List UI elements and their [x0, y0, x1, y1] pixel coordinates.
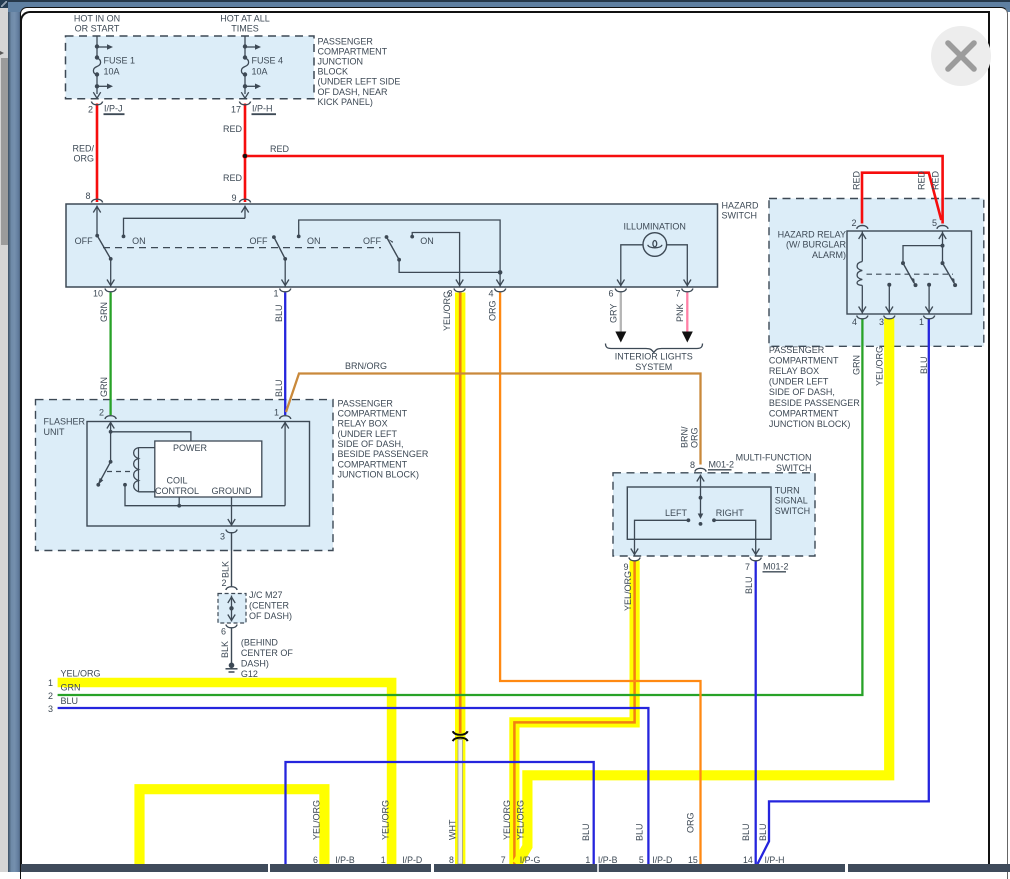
- svg-text:CENTER OF: CENTER OF: [241, 648, 294, 658]
- hazard switch pole 1: [95, 234, 99, 238]
- fuse F1 10A symbol: [96, 36, 98, 58]
- svg-text:M01-2: M01-2: [709, 460, 735, 470]
- svg-text:(UNDER LEFT: (UNDER LEFT: [769, 377, 829, 387]
- svg-text:10: 10: [93, 289, 103, 299]
- relay coil: [861, 232, 863, 262]
- svg-text:FUSE 4: FUSE 4: [252, 56, 284, 66]
- svg-text:HAZARD RELAY: HAZARD RELAY: [778, 230, 846, 240]
- svg-text:1: 1: [274, 408, 279, 418]
- svg-text:10A: 10A: [104, 67, 120, 77]
- passenger compartment junction block dashed box: [66, 36, 315, 99]
- hazard switch pole 3: [385, 235, 389, 239]
- svg-text:ILLUMINATION: ILLUMINATION: [624, 222, 686, 232]
- passenger compartment relay box dashed box: [769, 199, 984, 347]
- svg-text:BLU: BLU: [634, 823, 644, 841]
- inline connector on YEL/ORG-WHT wire: [453, 731, 468, 735]
- relay contact pole 2: [941, 261, 945, 265]
- svg-text:2: 2: [221, 578, 226, 588]
- svg-text:1: 1: [919, 317, 924, 327]
- svg-text:SIGNAL: SIGNAL: [775, 496, 808, 506]
- svg-text:GRN: GRN: [852, 355, 862, 375]
- svg-text:RED: RED: [852, 170, 862, 190]
- connector pin 4 of hazard switch: [495, 289, 506, 292]
- svg-text:(BEHIND: (BEHIND: [241, 638, 279, 648]
- wire GRY from hazard switch pin 6 to interior lights system: [620, 293, 622, 335]
- connector pin 3 of hazard switch: [454, 289, 465, 292]
- svg-text:WHT: WHT: [447, 819, 457, 840]
- arrow PNK to interior lights: [682, 332, 693, 343]
- flasher power/coil-control/ground box: [155, 441, 262, 497]
- wire ORG from hazard switch pin 4 to connector 15: [500, 293, 700, 865]
- wire BRN/ORG from flasher unit pin 1 to multi-function switch pin 8: [286, 374, 701, 465]
- connector pin 7 of hazard switch: [682, 289, 693, 292]
- wire RED/ORG from fuse 1 connector 2 I/P-J to hazard switch pin 8: [96, 104, 99, 203]
- svg-text:G12: G12: [241, 669, 258, 679]
- svg-text:COMPARTMENT: COMPARTMENT: [769, 408, 839, 418]
- flasher unit inner box: [87, 422, 310, 527]
- svg-text:COMPARTMENT: COMPARTMENT: [338, 459, 408, 469]
- svg-text:5: 5: [932, 218, 937, 228]
- svg-text:4: 4: [852, 317, 857, 327]
- relay linkage dashed: [867, 273, 953, 275]
- flasher switch contact and output: [123, 483, 127, 487]
- connector pin 1 of flasher unit: [280, 416, 291, 419]
- hazard switch box: [66, 204, 718, 287]
- svg-text:7: 7: [745, 562, 750, 572]
- svg-text:BLU: BLU: [581, 823, 591, 841]
- svg-text:SYSTEM: SYSTEM: [635, 362, 672, 372]
- svg-text:17: 17: [231, 105, 241, 115]
- svg-text:SWITCH: SWITCH: [722, 211, 758, 221]
- J/C M27 internal wire: [231, 596, 233, 622]
- svg-text:HOT IN ON: HOT IN ON: [74, 13, 120, 23]
- wire YEL/ORG highlighted from hazard relay pin 3 to connector 7 I/P-G: [517, 319, 889, 865]
- connector 9 of multi-function switch: [629, 558, 640, 561]
- connector pin 10 of hazard switch: [105, 289, 116, 292]
- svg-text:YEL/ORG: YEL/ORG: [516, 800, 526, 840]
- svg-text:GRN: GRN: [99, 377, 109, 397]
- svg-text:OFF: OFF: [75, 236, 93, 246]
- svg-text:SWITCH: SWITCH: [776, 463, 812, 473]
- svg-text:GRN: GRN: [99, 302, 109, 322]
- turn signal switch inner box: [627, 487, 771, 539]
- flasher unit dashed box: [36, 400, 334, 551]
- flasher coil: [134, 448, 139, 492]
- svg-text:BRN/ORG: BRN/ORG: [345, 361, 387, 371]
- svg-text:10A: 10A: [252, 67, 268, 77]
- svg-text:BLK: BLK: [220, 641, 230, 658]
- svg-text:INTERIOR LIGHTS: INTERIOR LIGHTS: [615, 352, 693, 362]
- svg-text:PASSENGER: PASSENGER: [769, 345, 825, 355]
- svg-text:RIGHT: RIGHT: [716, 508, 745, 518]
- connector pin 3 of flasher: [226, 530, 237, 533]
- connector pin 6 of hazard switch: [615, 289, 626, 292]
- hazard switch pole 2: [272, 235, 276, 239]
- svg-text:OF DASH): OF DASH): [249, 611, 292, 621]
- svg-text:I/P-H: I/P-H: [252, 104, 273, 114]
- right contact of turn signal switch: [712, 518, 716, 522]
- wire YEL/ORG highlighted from hazard switch pin 3 down to inline connector: [455, 293, 465, 865]
- wire BLK from flasher to J/C M27: [231, 532, 233, 586]
- svg-text:ORG: ORG: [488, 300, 498, 321]
- svg-text:6: 6: [221, 627, 226, 637]
- wire WHT highlighted from inline connector down to connector 8: [458, 740, 462, 865]
- svg-text:3: 3: [220, 532, 225, 542]
- svg-text:GRY: GRY: [609, 304, 619, 323]
- connector 2 I/P-J: [91, 102, 102, 105]
- svg-text:PASSENGER: PASSENGER: [338, 398, 394, 408]
- svg-text:ON: ON: [420, 236, 434, 246]
- flasher pin 2 internal wire: [110, 421, 112, 462]
- svg-text:RED: RED: [931, 170, 941, 190]
- svg-text:1: 1: [273, 289, 278, 299]
- svg-text:7: 7: [675, 289, 680, 299]
- svg-text:CONTROL: CONTROL: [155, 486, 199, 496]
- turn signal switch blade: [700, 475, 702, 498]
- svg-text:ORG: ORG: [73, 154, 94, 164]
- svg-text:FUSE 1: FUSE 1: [104, 56, 136, 66]
- svg-text:BLU: BLU: [741, 823, 751, 841]
- svg-text:BLU: BLU: [758, 823, 768, 841]
- flasher switch blade: [109, 460, 113, 464]
- svg-text:BLU: BLU: [919, 356, 929, 374]
- connector 8 M01-2: [695, 468, 706, 471]
- svg-text:2: 2: [99, 408, 104, 418]
- svg-text:HAZARD: HAZARD: [722, 201, 760, 211]
- svg-text:8: 8: [690, 460, 695, 470]
- relay pin 1 internal wire: [927, 283, 931, 287]
- svg-text:HOT AT ALL: HOT AT ALL: [220, 13, 270, 23]
- svg-text:RED: RED: [223, 124, 243, 134]
- svg-text:2: 2: [48, 691, 53, 701]
- flasher ground output: [231, 497, 233, 526]
- svg-text:YEL/ORG: YEL/ORG: [502, 800, 512, 840]
- svg-text:COMPARTMENT: COMPARTMENT: [338, 409, 408, 419]
- wire RED jumper from hazard relay pin 2 to pin 5: [862, 173, 941, 224]
- svg-text:KICK PANEL): KICK PANEL): [318, 97, 373, 107]
- hazard relay inner box: [847, 231, 972, 314]
- svg-text:2: 2: [851, 218, 856, 228]
- svg-text:(UNDER LEFT: (UNDER LEFT: [338, 429, 398, 439]
- svg-text:3: 3: [48, 704, 53, 714]
- ground G12 symbol: [229, 663, 235, 669]
- connector pin 3 of hazard relay: [884, 316, 895, 319]
- wire YEL/ORG highlighted n-shape to connector 6 I/P-B: [140, 789, 325, 864]
- brace interior lights system: [606, 344, 703, 353]
- svg-text:BESIDE PASSENGER: BESIDE PASSENGER: [338, 449, 429, 459]
- relay pin 5 internal wire: [942, 232, 944, 264]
- svg-text:GROUND: GROUND: [212, 486, 252, 496]
- svg-text:YEL/ORG: YEL/ORG: [61, 669, 101, 679]
- svg-text:GRN: GRN: [61, 682, 81, 692]
- svg-text:SWITCH: SWITCH: [775, 506, 811, 516]
- lamp lead left to pin 6: [621, 245, 643, 287]
- svg-text:3: 3: [879, 317, 884, 327]
- connector 17 I/P-H: [239, 102, 250, 105]
- svg-text:ON: ON: [307, 236, 321, 246]
- svg-text:BLU: BLU: [61, 696, 79, 706]
- svg-text:RELAY BOX: RELAY BOX: [338, 419, 388, 429]
- svg-text:OFF: OFF: [363, 236, 381, 246]
- connector 6 of J/C M27: [226, 625, 237, 628]
- svg-text:1: 1: [48, 678, 53, 688]
- svg-text:9: 9: [231, 193, 236, 203]
- svg-text:4: 4: [488, 289, 493, 299]
- multi-function switch dashed box: [613, 473, 815, 556]
- svg-text:YEL/ORG: YEL/ORG: [874, 346, 884, 386]
- svg-text:BLU: BLU: [744, 576, 754, 594]
- svg-text:8: 8: [85, 191, 90, 201]
- svg-text:YEL/ORG: YEL/ORG: [442, 291, 452, 331]
- svg-text:RED: RED: [223, 173, 243, 183]
- arrow GRY to interior lights: [615, 332, 626, 343]
- connector pin 4 of hazard relay: [857, 316, 868, 319]
- svg-text:M01-2: M01-2: [763, 562, 789, 572]
- svg-text:ALARM): ALARM): [812, 250, 846, 260]
- svg-text:OFF: OFF: [250, 236, 268, 246]
- connector 7 M01-2 of multi-function switch: [750, 558, 761, 561]
- svg-text:TURN: TURN: [775, 486, 800, 496]
- svg-text:RED/: RED/: [72, 144, 94, 154]
- connector pin 2 of flasher unit: [105, 416, 116, 419]
- wire GRN from hazard switch pin 10 to flasher unit pin 2: [109, 293, 111, 416]
- fuse F4 10A symbol: [244, 36, 246, 58]
- svg-text:DASH): DASH): [241, 659, 269, 669]
- svg-text:RELAY BOX: RELAY BOX: [769, 366, 819, 376]
- svg-text:6: 6: [608, 289, 613, 299]
- svg-text:PNK: PNK: [675, 303, 685, 322]
- svg-text:UNIT: UNIT: [44, 427, 65, 437]
- svg-text:BRN/: BRN/: [680, 426, 690, 448]
- wire RED from fuse 4 connector 17 I/P-H to hazard switch pin 9: [244, 104, 247, 203]
- connector pin 1 of hazard switch: [280, 289, 291, 292]
- svg-text:SIDE OF DASH,: SIDE OF DASH,: [338, 439, 404, 449]
- svg-text:ON: ON: [132, 236, 146, 246]
- svg-text:JUNCTION: JUNCTION: [318, 57, 364, 67]
- wire YEL/ORG highlighted row 1 from left edge to connector 1 I/P-D: [58, 683, 392, 865]
- svg-text:ORG: ORG: [690, 427, 700, 448]
- connector pin 8 into hazard switch: [91, 199, 102, 202]
- left contact of turn signal switch: [687, 518, 691, 522]
- wire BLU row 3 from left edge to connector 5 I/P-D: [58, 708, 649, 864]
- svg-text:(W/ BURGLAR: (W/ BURGLAR: [786, 240, 847, 250]
- svg-text:(CENTER: (CENTER: [249, 601, 289, 611]
- wire PNK from hazard switch pin 7 to interior lights system: [686, 293, 688, 335]
- svg-text:POWER: POWER: [173, 443, 208, 453]
- svg-text:BLK: BLK: [221, 561, 231, 578]
- lamp lead right to pin 7: [667, 245, 688, 287]
- svg-text:JUNCTION BLOCK): JUNCTION BLOCK): [338, 469, 420, 479]
- connector pin 2 of hazard relay: [857, 226, 868, 229]
- svg-text:RED: RED: [270, 144, 290, 154]
- svg-text:MULTI-FUNCTION: MULTI-FUNCTION: [736, 453, 812, 463]
- wire BLU from hazard relay pin 1 down and left to connector 14 I/P-H: [758, 319, 929, 865]
- relay pin 3 internal wire: [887, 283, 891, 287]
- connector 2 of J/C M27: [226, 587, 237, 590]
- svg-text:2: 2: [88, 105, 93, 115]
- svg-text:(UNDER LEFT SIDE: (UNDER LEFT SIDE: [318, 77, 401, 87]
- svg-text:PASSENGER: PASSENGER: [318, 37, 374, 47]
- wire BLU from hazard switch pin 1 to flasher unit pin 1: [284, 293, 286, 416]
- svg-text:BLOCK: BLOCK: [318, 67, 349, 77]
- svg-text:TIMES: TIMES: [231, 24, 259, 34]
- connector pin 1 of hazard relay: [924, 316, 935, 319]
- connector pin 5 of hazard relay: [937, 226, 948, 229]
- svg-text:I/P-J: I/P-J: [104, 104, 123, 114]
- svg-text:COMPARTMENT: COMPARTMENT: [769, 356, 839, 366]
- wire BLU elbow between bottom connectors and connector 1 I/P-B: [286, 762, 594, 864]
- svg-text:ORG: ORG: [686, 812, 696, 833]
- svg-text:COIL: COIL: [166, 476, 187, 486]
- svg-text:YEL/ORG: YEL/ORG: [312, 800, 322, 840]
- svg-text:9: 9: [623, 562, 628, 572]
- wire BLU from multi-function switch pin 7 to connector 14 I/P-H: [755, 561, 757, 865]
- relay contact pole 1: [901, 261, 905, 265]
- svg-text:SIDE OF DASH,: SIDE OF DASH,: [769, 387, 835, 397]
- svg-text:OF DASH, NEAR: OF DASH, NEAR: [318, 87, 389, 97]
- wire RED branch to hazard relay pin 5: [245, 156, 943, 224]
- svg-text:YEL/ORG: YEL/ORG: [623, 571, 633, 611]
- svg-text:J/C M27: J/C M27: [249, 590, 283, 600]
- svg-text:COMPARTMENT: COMPARTMENT: [318, 47, 388, 57]
- svg-text:RED: RED: [917, 170, 927, 190]
- svg-text:JUNCTION BLOCK): JUNCTION BLOCK): [769, 419, 851, 429]
- connector pin 9 into hazard switch: [239, 199, 250, 202]
- flasher linkage dashed: [107, 471, 131, 473]
- svg-text:LEFT: LEFT: [665, 508, 688, 518]
- junction RED at fuse 4 feed: [242, 153, 247, 158]
- svg-text:FLASHER: FLASHER: [44, 417, 86, 427]
- wire GRN from hazard relay pin 4 to left edge row 2: [58, 319, 863, 696]
- svg-text:YEL/ORG: YEL/ORG: [381, 800, 391, 840]
- svg-text:BLU: BLU: [274, 379, 284, 397]
- junction connector J/C M27 dashed box: [218, 594, 246, 624]
- hazard switch ganged linkage dashed line: [103, 247, 381, 249]
- wire YEL/ORG highlighted from multi-function switch pin 9 to connector 7 I/P-G: [514, 561, 634, 865]
- svg-text:BESIDE PASSENGER: BESIDE PASSENGER: [769, 398, 860, 408]
- svg-text:OR START: OR START: [75, 24, 120, 34]
- svg-text:BLU: BLU: [274, 304, 284, 322]
- wire BLK from J/C M27 to ground G12: [231, 628, 233, 664]
